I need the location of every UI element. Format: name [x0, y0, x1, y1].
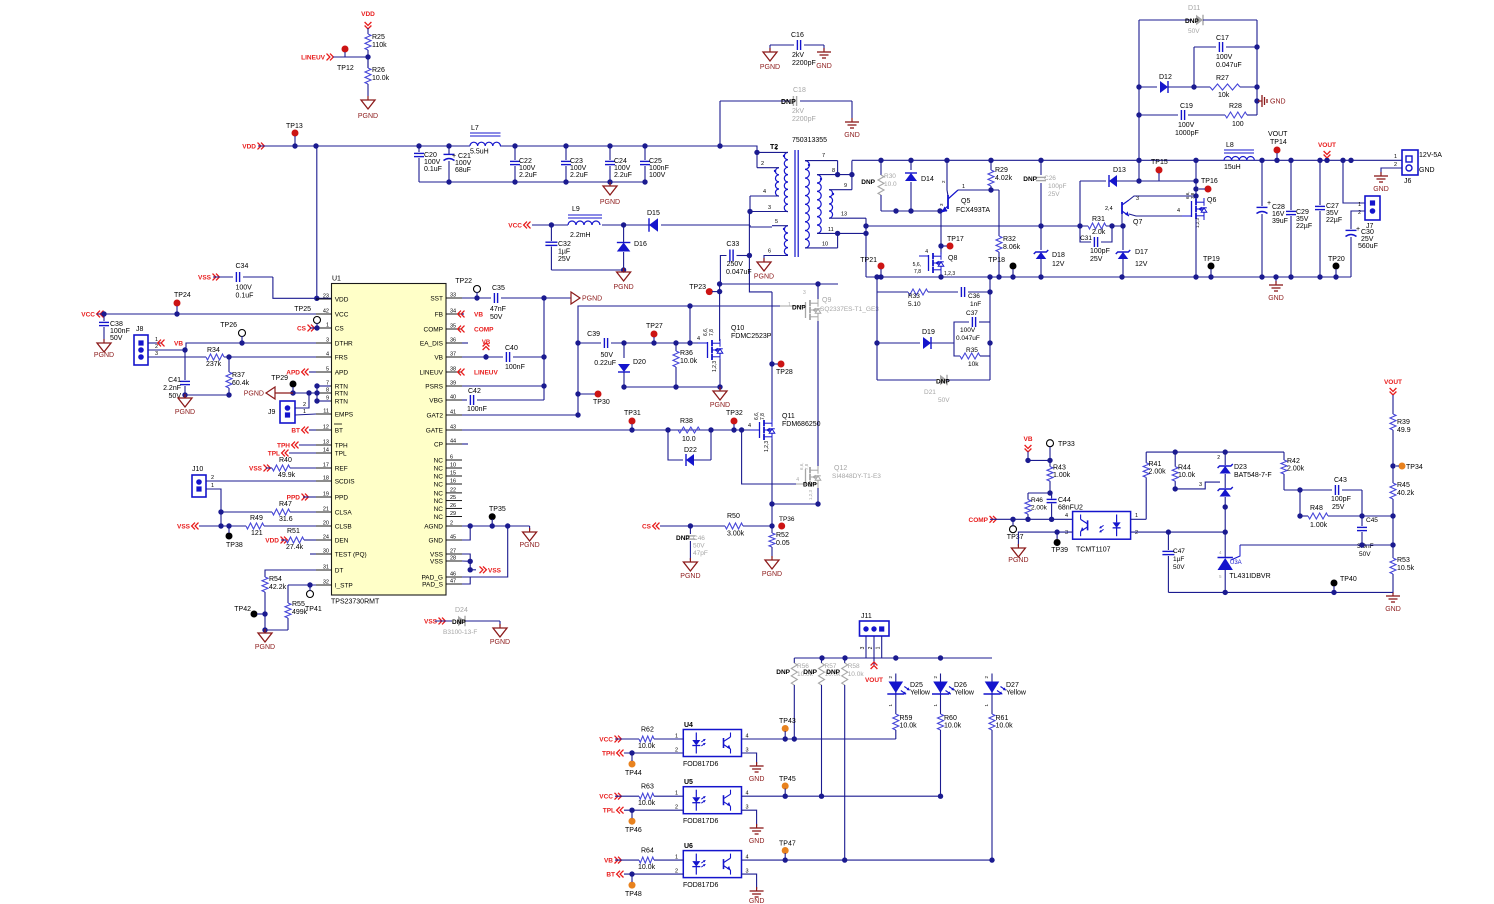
svg-text:C16: C16: [791, 32, 804, 39]
ground PGND D24: [490, 621, 510, 646]
svg-text:R54: R54: [269, 576, 282, 583]
wire T2 pin2 tie: [757, 152, 779, 167]
svg-text:R61: R61: [996, 715, 1009, 722]
svg-text:CS: CS: [335, 326, 345, 333]
svg-text:DNP: DNP: [803, 482, 817, 489]
svg-text:U1: U1: [332, 276, 341, 283]
svg-text:12: 12: [323, 425, 329, 431]
svg-text:BT: BT: [335, 428, 343, 435]
svg-text:C36: C36: [968, 293, 980, 300]
svg-text:1,2,3: 1,2,3: [944, 271, 955, 277]
net label VDD DEN: [265, 537, 287, 545]
svg-text:I_STP: I_STP: [335, 583, 353, 590]
resistor R45: [1390, 482, 1415, 558]
svg-text:TP37: TP37: [1007, 534, 1024, 541]
svg-text:R40: R40: [279, 457, 292, 464]
svg-text:+: +: [1356, 226, 1360, 233]
wire LINEUV-TP12-R25: [333, 54, 371, 68]
ground PGND C16: [760, 48, 780, 71]
svg-text:C31: C31: [1080, 235, 1092, 242]
svg-text:SI4848DY-T1-E3: SI4848DY-T1-E3: [832, 473, 881, 480]
resistor R42: [1281, 452, 1305, 490]
net label CS R50: [642, 523, 660, 531]
svg-text:7,8: 7,8: [1190, 192, 1195, 199]
ground PGND C38: [94, 339, 114, 359]
svg-text:100nF: 100nF: [649, 165, 669, 172]
wire SST: [462, 297, 491, 299]
wire COMP row: [990, 517, 1073, 522]
capacitor C31: [1080, 226, 1112, 263]
svg-text:R31: R31: [1092, 216, 1105, 223]
svg-text:68uF: 68uF: [455, 167, 471, 174]
svg-text:2,4: 2,4: [1105, 206, 1113, 212]
wire VCC rail: [97, 311, 316, 316]
svg-text:PPD: PPD: [335, 495, 349, 502]
ground PGND AGND: [519, 526, 539, 549]
svg-text:SCDIS: SCDIS: [335, 479, 356, 486]
testpoint TP13: [286, 123, 303, 149]
svg-text:50V: 50V: [601, 352, 614, 359]
ground GND output: [1268, 277, 1284, 302]
connector J7: [1358, 196, 1380, 230]
svg-text:VSS: VSS: [430, 559, 444, 566]
capacitor C46 DNP: [676, 526, 708, 560]
svg-text:100V: 100V: [455, 160, 472, 167]
svg-text:44: 44: [450, 439, 456, 445]
wire VDD rail: [258, 143, 723, 148]
wire opto pin3 PGND: [1018, 529, 1072, 546]
wire C32-D16 bottom: [551, 267, 626, 272]
svg-text:GND: GND: [844, 132, 860, 139]
wire opto pin1: [1131, 518, 1147, 520]
svg-text:22µF: 22µF: [1296, 223, 1312, 230]
svg-text:25V: 25V: [1048, 191, 1060, 198]
diode D17 12V: [1116, 226, 1148, 277]
capacitor C24: [605, 146, 632, 182]
svg-text:2.2uF: 2.2uF: [614, 172, 632, 179]
svg-text:FB: FB: [435, 312, 443, 319]
testpoint TP42: [234, 606, 265, 618]
svg-text:COMP: COMP: [474, 327, 494, 334]
wire D14 bottom row: [881, 208, 947, 213]
svg-text:TP27: TP27: [646, 323, 663, 330]
wire Q12 source row: [769, 488, 820, 507]
svg-text:PGND: PGND: [244, 391, 264, 398]
svg-text:R27: R27: [1216, 75, 1229, 82]
wire VCC-L9: [532, 224, 568, 226]
svg-text:TP13: TP13: [286, 123, 303, 130]
svg-text:TP23: TP23: [689, 284, 706, 291]
svg-text:C19: C19: [1180, 103, 1193, 110]
svg-text:3: 3: [803, 290, 806, 296]
svg-text:60.4k: 60.4k: [232, 380, 250, 387]
diode D13: [1080, 167, 1199, 226]
wire VBG: [462, 399, 467, 401]
svg-text:25: 25: [450, 495, 456, 501]
wire C34 to VDD pin: [273, 277, 332, 301]
svg-text:B3100-13-F: B3100-13-F: [443, 629, 477, 636]
svg-text:100nF: 100nF: [505, 364, 525, 371]
svg-text:50V: 50V: [490, 314, 503, 321]
svg-text:PGND: PGND: [754, 274, 774, 281]
resistor R28: [1225, 103, 1257, 128]
svg-text:D14: D14: [921, 176, 934, 183]
svg-text:TPL: TPL: [603, 808, 615, 815]
connector J8: [134, 326, 158, 365]
svg-text:DT: DT: [335, 568, 344, 575]
svg-text:3: 3: [1065, 530, 1068, 536]
testpoint TP35: [489, 506, 506, 526]
svg-text:TP32: TP32: [726, 410, 743, 417]
wire D15 to T2 pin5: [662, 225, 772, 227]
power flag VOUT fb: [1384, 379, 1402, 414]
svg-text:C37: C37: [966, 310, 978, 317]
transformer T2 750313355: [770, 137, 834, 257]
svg-text:47pF: 47pF: [693, 550, 708, 557]
testpoint TP28: [772, 361, 793, 377]
svg-text:25V: 25V: [1361, 236, 1374, 243]
svg-text:TEST (PQ): TEST (PQ): [335, 552, 367, 559]
svg-text:42.2k: 42.2k: [269, 584, 287, 591]
svg-text:TP18: TP18: [988, 257, 1005, 264]
svg-text:D18: D18: [1052, 252, 1065, 259]
svg-text:GND: GND: [1268, 295, 1284, 302]
svg-text:R48: R48: [1310, 505, 1323, 512]
svg-text:VB: VB: [1023, 436, 1032, 443]
svg-text:15uH: 15uH: [1224, 164, 1241, 171]
svg-text:1: 1: [1358, 202, 1361, 208]
wire PSRS: [462, 383, 547, 388]
resistor R43: [1047, 460, 1071, 493]
svg-text:D25: D25: [910, 682, 923, 689]
svg-text:R52: R52: [776, 532, 789, 539]
testpoint TP47: [779, 841, 796, 861]
capacitor C19: [1139, 103, 1225, 137]
svg-text:20: 20: [323, 521, 329, 527]
capacitor C39: [578, 331, 706, 367]
svg-text:50V: 50V: [693, 543, 705, 550]
svg-text:6: 6: [768, 249, 771, 255]
svg-text:VB: VB: [474, 312, 483, 319]
capacitor C41: [163, 350, 190, 400]
svg-text:4: 4: [1177, 208, 1180, 214]
svg-text:3: 3: [155, 351, 158, 357]
wire TL431 ref row: [1240, 542, 1396, 547]
svg-text:8: 8: [832, 168, 835, 174]
capacitor C17: [1194, 35, 1257, 87]
svg-text:5: 5: [326, 367, 329, 373]
testpoint TP34: [1396, 463, 1423, 472]
wire Q6 drain vert: [1193, 160, 1198, 200]
svg-text:DNP: DNP: [452, 619, 466, 626]
capacitor C38: [99, 314, 130, 342]
svg-text:R28: R28: [1229, 103, 1242, 110]
wire GND pin45: [462, 526, 470, 540]
svg-text:R44: R44: [1178, 465, 1191, 472]
resistor R31: [1088, 216, 1126, 236]
resistor R40: [266, 457, 316, 479]
svg-text:DNP: DNP: [1185, 18, 1199, 25]
svg-text:2: 2: [868, 646, 874, 649]
svg-text:FDM686250: FDM686250: [782, 421, 821, 428]
svg-text:4: 4: [697, 336, 700, 342]
power flag VOUT rail: [1318, 142, 1336, 160]
resistor R53: [1390, 557, 1415, 592]
svg-text:R34: R34: [207, 347, 220, 354]
wire CP stub: [462, 443, 468, 445]
connector J10: [192, 466, 214, 497]
wire U5 pin4 row: [742, 794, 944, 799]
svg-text:46: 46: [450, 572, 456, 578]
svg-text:1: 1: [788, 302, 791, 308]
svg-text:4.02k: 4.02k: [995, 175, 1013, 182]
svg-text:17: 17: [323, 463, 329, 469]
resistor R56 DNP: [776, 658, 813, 739]
svg-text:VOUT: VOUT: [1318, 142, 1336, 149]
svg-text:VOUT: VOUT: [1384, 379, 1402, 386]
svg-text:3: 3: [326, 338, 329, 344]
wire bottom secondary rail: [866, 274, 1351, 279]
svg-text:TP38: TP38: [226, 542, 243, 549]
svg-text:DNP: DNP: [803, 669, 817, 676]
svg-text:37: 37: [450, 352, 456, 358]
resistor R38: [678, 418, 700, 443]
wire fb bottom row: [1168, 590, 1393, 595]
capacitor C21: [444, 146, 472, 182]
svg-text:C20: C20: [424, 152, 437, 159]
capacitor C26 DNP: [1023, 160, 1066, 226]
svg-text:2.00k: 2.00k: [1149, 469, 1167, 476]
net label COMP fb: [969, 516, 997, 524]
svg-text:2kV: 2kV: [792, 52, 804, 59]
resistor R50: [725, 513, 772, 538]
svg-text:TP39: TP39: [1051, 547, 1068, 554]
svg-text:TP30: TP30: [593, 399, 610, 406]
wire VB pin: [462, 356, 503, 358]
svg-text:CLSB: CLSB: [335, 524, 352, 531]
svg-text:3: 3: [768, 205, 771, 211]
svg-text:C47: C47: [1173, 548, 1185, 555]
svg-text:DNP: DNP: [781, 99, 796, 106]
svg-text:C23: C23: [570, 158, 583, 165]
svg-text:5.5uH: 5.5uH: [470, 149, 489, 156]
net label BT: [291, 427, 316, 435]
svg-text:2: 2: [155, 344, 158, 350]
inductor L8: [1224, 142, 1254, 171]
svg-text:R50: R50: [727, 513, 740, 520]
resistor R57 DNP: [803, 658, 841, 798]
svg-text:12V-5A: 12V-5A: [1419, 152, 1442, 159]
svg-text:REF: REF: [335, 466, 348, 473]
inductor L9: [568, 206, 602, 239]
capacitor C16: [770, 32, 824, 67]
svg-text:J9: J9: [268, 409, 276, 416]
svg-text:AGND: AGND: [424, 524, 443, 531]
capacitor C40: [505, 345, 547, 371]
wire fb right col: [1390, 455, 1395, 483]
svg-text:TP21: TP21: [860, 257, 877, 264]
svg-text:PSRS: PSRS: [425, 384, 443, 391]
svg-text:100pF: 100pF: [1090, 248, 1110, 255]
svg-text:CLSA: CLSA: [335, 510, 353, 517]
testpoint TP22: [455, 278, 480, 301]
wire fb rowA: [1025, 458, 1052, 463]
svg-text:C26: C26: [1044, 175, 1056, 182]
testpoint TP40: [1331, 576, 1357, 592]
capacitor C20: [414, 146, 442, 182]
svg-text:R46: R46: [1031, 497, 1043, 504]
resistor R32: [996, 236, 1021, 277]
svg-text:100nF: 100nF: [110, 328, 130, 335]
svg-text:36: 36: [450, 338, 456, 344]
net label TPH U4: [602, 750, 624, 758]
svg-text:TP29: TP29: [271, 375, 288, 382]
wire GAT2: [462, 306, 690, 418]
svg-text:4: 4: [796, 477, 799, 483]
svg-text:SQ2337ES-T1_GE3: SQ2337ES-T1_GE3: [820, 306, 879, 313]
svg-text:TP34: TP34: [1406, 464, 1423, 471]
wire Q5 emitter: [938, 212, 943, 254]
ground GND C16: [816, 48, 832, 70]
LED D25 Yellow: [887, 674, 931, 707]
wire RTN bracket: [293, 383, 330, 403]
svg-text:J6: J6: [1404, 178, 1412, 185]
svg-text:Yellow: Yellow: [910, 690, 931, 697]
wire J6 pin2 GND: [1381, 168, 1402, 174]
svg-text:R60: R60: [944, 715, 957, 722]
svg-text:Q5: Q5: [961, 198, 970, 205]
svg-text:PGND: PGND: [1008, 557, 1028, 564]
svg-text:10k: 10k: [1218, 92, 1230, 99]
svg-text:0.22uF: 0.22uF: [594, 360, 616, 367]
svg-text:D19: D19: [922, 329, 935, 336]
svg-text:VCC: VCC: [599, 794, 613, 801]
wire DTHR net: [148, 343, 316, 353]
svg-text:34: 34: [450, 309, 456, 315]
svg-text:11: 11: [323, 409, 329, 415]
svg-text:VCC: VCC: [81, 312, 95, 319]
wire U4 pin4 row: [742, 736, 896, 741]
svg-text:5,6,: 5,6,: [913, 262, 921, 268]
svg-text:1: 1: [326, 323, 329, 329]
svg-text:40.2k: 40.2k: [1397, 490, 1415, 497]
net label TPL: [268, 450, 316, 458]
svg-text:10.0k: 10.0k: [944, 723, 962, 730]
svg-text:C18: C18: [793, 87, 806, 94]
net label VB J8: [148, 340, 183, 348]
svg-text:VDD: VDD: [335, 297, 349, 304]
resistor R59: [893, 697, 917, 740]
svg-text:TP16: TP16: [1201, 178, 1218, 185]
svg-text:L7: L7: [471, 125, 479, 132]
svg-text:0.047uF: 0.047uF: [956, 335, 980, 342]
svg-text:0.047uF: 0.047uF: [726, 269, 752, 276]
svg-text:26: 26: [450, 503, 456, 509]
svg-text:VCC: VCC: [508, 223, 522, 230]
svg-text:0.05: 0.05: [776, 540, 790, 547]
capacitor C29: [1286, 160, 1312, 277]
net label COMP: [458, 326, 495, 334]
ground GND fb: [1385, 592, 1401, 613]
svg-text:100pF: 100pF: [1048, 183, 1066, 190]
svg-text:1,2,3: 1,2,3: [764, 441, 770, 452]
ground GND U6: [749, 887, 765, 904]
power flag VB: [482, 340, 491, 360]
wire T2 pin11: [817, 227, 866, 236]
wire L9-D15: [602, 222, 649, 227]
svg-text:U3A: U3A: [1230, 560, 1242, 566]
svg-text:Q7: Q7: [1133, 219, 1142, 226]
svg-text:PGND: PGND: [613, 284, 633, 291]
wire mid row 285: [717, 281, 838, 286]
wire D11 left vert: [1136, 20, 1141, 184]
svg-text:GAT2: GAT2: [427, 413, 444, 420]
svg-text:3: 3: [1136, 196, 1139, 202]
resistor R62: [615, 727, 683, 751]
svg-text:C38: C38: [110, 321, 123, 328]
svg-text:11: 11: [828, 227, 834, 233]
svg-text:PGND: PGND: [94, 352, 114, 359]
svg-text:TP22: TP22: [455, 278, 472, 285]
svg-text:1: 1: [876, 646, 882, 649]
svg-text:18: 18: [323, 476, 329, 482]
svg-text:CS: CS: [642, 524, 652, 531]
svg-text:C34: C34: [236, 263, 249, 270]
transistor Q10 FDMC2523P: [697, 325, 772, 372]
svg-text:2200pF: 2200pF: [792, 116, 816, 123]
testpoint TP30: [578, 391, 610, 407]
svg-text:31: 31: [323, 565, 329, 571]
net label PPD: [287, 494, 316, 502]
svg-text:R39: R39: [1397, 419, 1410, 426]
svg-text:FDMC2523P: FDMC2523P: [731, 333, 772, 340]
svg-text:19: 19: [323, 492, 329, 498]
svg-text:10k: 10k: [968, 361, 979, 368]
svg-text:TP41: TP41: [305, 606, 322, 613]
wire Q10 drain up: [719, 284, 721, 341]
svg-text:NC: NC: [434, 514, 444, 521]
svg-text:C45: C45: [1366, 517, 1378, 524]
ground PGND T2: [754, 258, 774, 281]
svg-text:PGND: PGND: [255, 644, 275, 651]
svg-text:L8: L8: [1226, 142, 1234, 149]
svg-text:Q6: Q6: [1207, 197, 1216, 204]
svg-text:2.2uF: 2.2uF: [570, 172, 588, 179]
svg-text:2.2uF: 2.2uF: [519, 172, 537, 179]
wire VSS pins: [462, 554, 476, 573]
resistor R26: [365, 57, 390, 96]
wire FRS net: [148, 356, 206, 358]
resistor R46: [1025, 493, 1048, 519]
svg-text:TP17: TP17: [947, 236, 964, 243]
diode D11 DNP: [1139, 5, 1257, 35]
svg-text:38: 38: [450, 367, 456, 373]
svg-text:U5: U5: [684, 779, 693, 786]
svg-text:GND: GND: [1373, 186, 1389, 193]
svg-text:DNP: DNP: [676, 535, 690, 542]
wire T2 pin7: [805, 153, 840, 177]
svg-text:27.4k: 27.4k: [286, 544, 304, 551]
op-amp U3A TL431IDBVR: [1218, 532, 1271, 592]
svg-text:100V: 100V: [614, 165, 631, 172]
svg-text:BAT548-7-F: BAT548-7-F: [1234, 472, 1272, 479]
svg-text:24: 24: [323, 535, 329, 541]
testpoint TP29: [271, 375, 296, 396]
svg-text:110k: 110k: [372, 42, 387, 49]
net label VCC U4: [599, 736, 621, 744]
svg-text:R30: R30: [884, 173, 896, 180]
svg-text:DNP: DNP: [936, 379, 950, 386]
